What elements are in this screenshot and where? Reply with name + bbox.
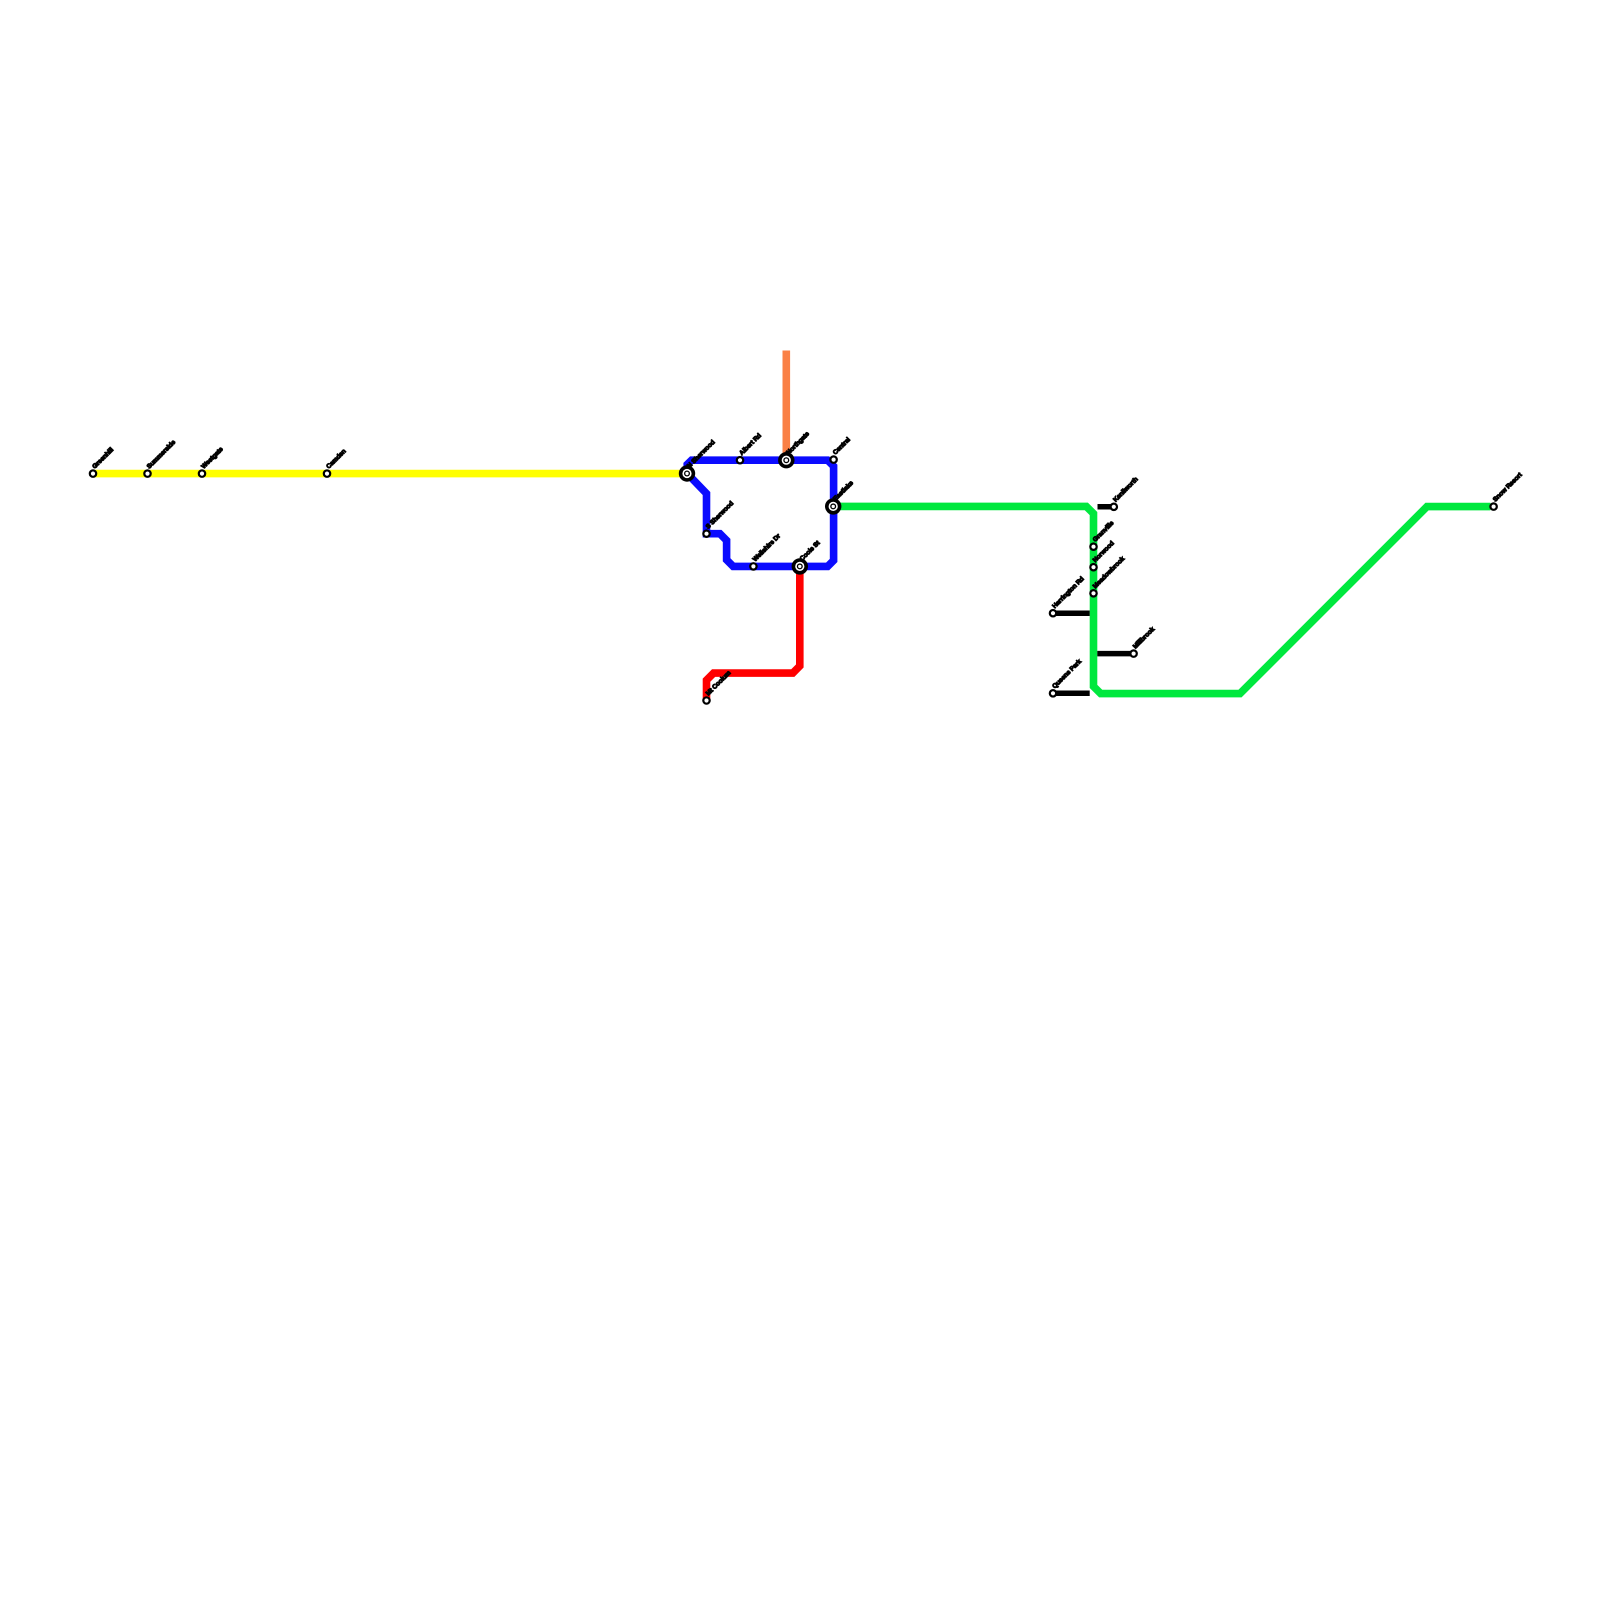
orange line: [782, 351, 790, 461]
station Camden: [324, 448, 348, 477]
station Norwood: [1090, 540, 1116, 571]
blue loop line: [687, 460, 833, 566]
station Wellshire Dr: [750, 532, 782, 569]
station Granville: [1090, 519, 1115, 549]
green line: [833, 506, 1490, 693]
interchange Coole St: [792, 539, 823, 574]
connector bar station Millbrook: [1097, 626, 1156, 657]
connector bar station Harrington Rd: [1050, 575, 1090, 616]
interchange N Sherwood: [679, 439, 717, 482]
station S Sherwood: [703, 500, 735, 537]
station Summerside: [144, 439, 177, 477]
station Snow Resort: [1490, 471, 1524, 510]
station Westgate: [199, 446, 225, 477]
station Mt Coolum: [703, 669, 732, 703]
connector bar station Queens Park: [1050, 658, 1090, 697]
red line: [707, 566, 800, 700]
station Albert Rd: [737, 432, 763, 463]
interchange Eastlake: [825, 479, 855, 514]
yellow line: [93, 470, 686, 478]
connector bar station Kenilworth: [1098, 476, 1140, 510]
station Meadowbrook: [1090, 555, 1126, 596]
station Central: [830, 436, 852, 463]
interchange Northgate: [778, 430, 811, 468]
station Greenhill: [90, 446, 116, 477]
